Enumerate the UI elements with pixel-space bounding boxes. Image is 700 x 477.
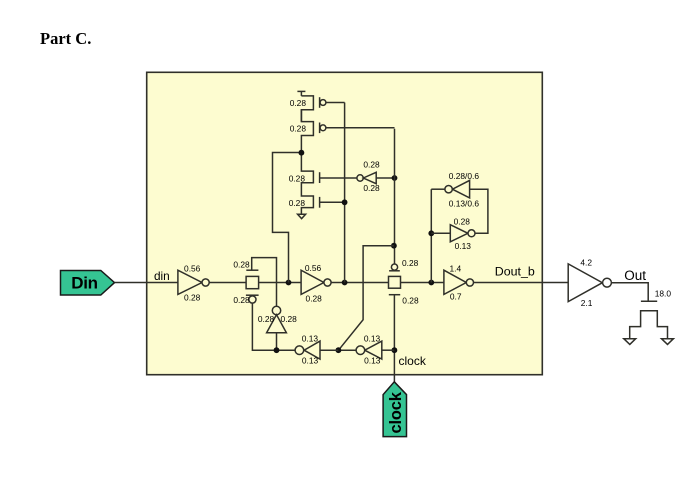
- svg-text:0.28: 0.28: [454, 216, 471, 226]
- inverter U5 (0.13/0.13 right): [356, 341, 394, 359]
- wire U2 output to TG2: [331, 282, 388, 284]
- wire U6 output to node CKBB: [252, 349, 295, 351]
- wire node Y up to C2MOS data gates: [344, 103, 346, 283]
- svg-text:0.28: 0.28: [289, 198, 306, 208]
- TG2 top gate bubble: [391, 264, 397, 270]
- TG1 bottom gate bubble: [249, 296, 256, 303]
- svg-text:0.28: 0.28: [281, 314, 298, 324]
- svg-text:0.28: 0.28: [402, 296, 419, 306]
- inverter U9 (0.28-0.6/0.13-0.6 keeper feedback): [431, 180, 469, 198]
- svg-text:0.28/0.6: 0.28/0.6: [449, 171, 480, 181]
- svg-text:1.4: 1.4: [449, 264, 461, 274]
- transistor M4 gate (nmos 0.28): [320, 197, 345, 208]
- svg-text:0.28: 0.28: [306, 294, 323, 304]
- junction keeper input: [428, 230, 434, 236]
- inverter U10 output driver (4.2/2.1): [568, 264, 611, 302]
- TG1 bottom gate bar: [246, 294, 259, 296]
- svg-text:0.28: 0.28: [290, 98, 307, 108]
- transmission gate TG1: [246, 276, 259, 288]
- wire U5 output to node CKB: [338, 349, 356, 351]
- C2MOS stack rail with transistor channels M1 M2 M3 M4: [301, 96, 313, 214]
- wire TG2 to inverter U7: [401, 282, 444, 284]
- wire Out to load: [611, 283, 648, 302]
- junction C2MOS output node: [299, 150, 305, 156]
- junction M4 gate to data line: [342, 199, 348, 205]
- inverter U2 (0.56/0.28): [301, 270, 331, 294]
- svg-text:0.28: 0.28: [363, 160, 380, 170]
- transistor M1 gate (pmos 0.28): [320, 97, 345, 108]
- inverter U6 (0.13/0.13 left): [295, 341, 320, 359]
- load capacitor gate bar (18.0): [641, 300, 657, 302]
- svg-text:0.56: 0.56: [305, 263, 322, 273]
- wire Din to inverter U1 input: [115, 282, 178, 284]
- junction node Y: [342, 280, 348, 286]
- ground right under load: [662, 339, 674, 345]
- wire clkb branch to node CKB: [338, 246, 394, 351]
- svg-text:Part C.: Part C.: [40, 29, 91, 48]
- schematic bounding box: [147, 72, 543, 374]
- svg-text:0.28: 0.28: [233, 260, 250, 270]
- transmission gate TG2: [389, 276, 401, 288]
- svg-text:0.56: 0.56: [184, 264, 201, 274]
- inverter U4 (0.28/0.28 clk buffer): [357, 172, 395, 183]
- TG2 bottom gate bar: [389, 294, 400, 296]
- svg-text:0.28: 0.28: [289, 173, 306, 183]
- svg-text:0.13: 0.13: [302, 356, 319, 366]
- wire slave node up to keeper loop: [430, 189, 432, 282]
- junction node CKB: [336, 347, 342, 353]
- svg-text:0.13/0.6: 0.13/0.6: [449, 198, 480, 208]
- svg-text:0.28: 0.28: [290, 123, 307, 133]
- wire TG1 bottom gate to node CKBB: [252, 303, 276, 350]
- svg-text:Out: Out: [624, 268, 646, 283]
- svg-text:2.1: 2.1: [581, 298, 593, 308]
- wire Dout_b to output inverter: [474, 282, 569, 284]
- vdd symbol: [297, 91, 305, 96]
- wire node X up to C2MOS output: [273, 153, 302, 283]
- svg-text:18.0: 18.0: [655, 289, 672, 299]
- clock port (green flag): [383, 382, 406, 437]
- svg-text:0.13: 0.13: [364, 333, 381, 343]
- TG2 top gate bar: [389, 270, 400, 272]
- ground under stack: [298, 214, 306, 218]
- inverter U8 (0.28/0.13 keeper forward): [431, 225, 475, 242]
- junction clkb branch: [391, 243, 397, 249]
- svg-text:4.2: 4.2: [580, 258, 592, 268]
- svg-text:clock: clock: [387, 391, 405, 433]
- svg-text:0.13: 0.13: [302, 333, 319, 343]
- input port Din (green flag): [61, 271, 115, 296]
- junction U4 input on clkb line: [392, 175, 398, 181]
- junction node X: [286, 280, 292, 286]
- inverter U1 (0.56/0.28): [178, 270, 209, 294]
- svg-text:0.13: 0.13: [364, 356, 381, 366]
- svg-text:Dout_b: Dout_b: [495, 264, 535, 278]
- wire TG1 to inverter U2 with node X: [259, 282, 302, 284]
- wire U8 output loop to U9 input: [470, 189, 488, 233]
- svg-text:clock: clock: [399, 354, 427, 368]
- svg-text:din: din: [154, 269, 170, 283]
- junction slave node: [428, 280, 434, 286]
- inverter U7 (1.4/0.7): [444, 270, 474, 294]
- svg-text:0.28: 0.28: [363, 183, 380, 193]
- junction clock node: [392, 347, 398, 353]
- wire TG2 bottom gate to clock: [393, 295, 395, 383]
- svg-text:Din: Din: [71, 274, 97, 293]
- wire TG1 top gate to inverter U3 output: [252, 258, 277, 307]
- svg-text:0.28: 0.28: [233, 295, 250, 305]
- transistor M2 gate (pmos 0.28): [320, 123, 395, 134]
- svg-text:0.28: 0.28: [402, 258, 419, 268]
- junction node CKBB: [274, 347, 280, 353]
- load mos body: [630, 311, 668, 339]
- svg-text:0.7: 0.7: [450, 292, 462, 302]
- svg-text:0.28: 0.28: [258, 314, 275, 324]
- wire node CKB to inverter U6 input: [320, 349, 338, 351]
- ground left under load: [624, 339, 636, 345]
- svg-text:0.28: 0.28: [184, 293, 201, 303]
- TG1 top gate bar: [246, 269, 258, 271]
- inverter U3 vertical (0.28/0.28): [267, 306, 287, 350]
- clkb vertical line: [394, 129, 396, 264]
- wire U1 output to transmission gate TG1: [209, 282, 246, 284]
- transistor M3 gate (nmos 0.28): [320, 172, 357, 183]
- svg-text:0.13: 0.13: [455, 241, 472, 251]
